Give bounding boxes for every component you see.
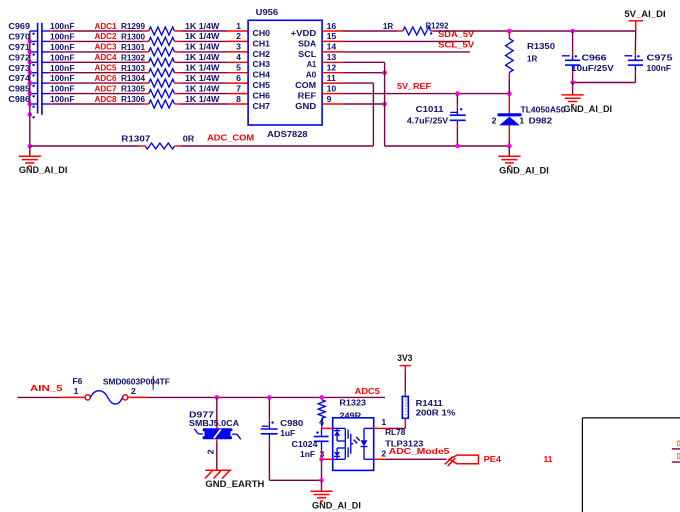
svg-text:1R: 1R (527, 54, 538, 64)
svg-text:100nF: 100nF (50, 73, 75, 83)
capacitor C980 1uF (261, 397, 304, 480)
big IC box bottom right (582, 418, 680, 512)
svg-text:GND_AI_DI: GND_AI_DI (19, 165, 68, 175)
capacitor C966 10uF/25V (562, 31, 614, 83)
svg-text:2: 2 (381, 448, 386, 458)
U956 right pin names (291, 28, 317, 111)
pin 3 opto (320, 449, 333, 459)
svg-text:1K 1/4W: 1K 1/4W (185, 83, 220, 93)
svg-text:D982: D982 (529, 115, 553, 125)
svg-text:1/16W: 1/16W (404, 396, 409, 416)
svg-text:11: 11 (544, 454, 553, 464)
wire 5V_AI_DI rail (434, 30, 636, 32)
svg-text:1K 1/4W: 1K 1/4W (185, 94, 220, 104)
svg-text:0R: 0R (183, 133, 195, 143)
junction dot A0 (382, 70, 387, 75)
edge fragments right (672, 441, 680, 462)
ground GND_AI_DI under D982 (498, 146, 549, 176)
wire net ADC6 row 6 (50, 73, 143, 83)
pin 1 CH0 (227, 21, 248, 31)
svg-text:1: 1 (381, 417, 386, 427)
wire to pin 1 (181, 30, 227, 32)
svg-text:CH2: CH2 (253, 49, 271, 59)
junction dot 5V_REF at R1350/D982 (507, 91, 512, 96)
svg-text:5V_AI_DI: 5V_AI_DI (624, 9, 665, 19)
diode D982 TL4050A50 (492, 94, 566, 146)
svg-text:6: 6 (236, 73, 241, 83)
svg-text:+VDD: +VDD (291, 28, 317, 38)
pin 13 A1 (322, 61, 343, 63)
svg-text:C975: C975 (647, 53, 673, 63)
svg-text:14: 14 (327, 42, 337, 52)
svg-text:249R: 249R (339, 410, 362, 420)
svg-text:16: 16 (327, 21, 337, 31)
svg-text:ADC8: ADC8 (95, 94, 117, 104)
pin 7 CH6 (227, 83, 248, 93)
port PE4 (445, 454, 501, 466)
svg-text:TL4050A50: TL4050A50 (521, 104, 566, 114)
pin 4 CH3 (227, 52, 248, 62)
ground GND_EARTH (205, 470, 265, 489)
wire vertical COM down (372, 83, 374, 146)
pin 16 +VDD (322, 30, 343, 32)
wire SCL_5V net (343, 40, 474, 52)
capacitor C974 (8, 73, 74, 87)
svg-text:R1299: R1299 (121, 21, 145, 31)
svg-text:REF: REF (298, 91, 317, 101)
svg-text:SCL_5V: SCL_5V (438, 40, 474, 50)
svg-text:R1305: R1305 (121, 84, 145, 94)
svg-text:GND_EARTH: GND_EARTH (205, 479, 264, 489)
svg-text:1R: 1R (383, 21, 394, 31)
svg-text:COM: COM (295, 80, 316, 90)
wire to pin 8 (181, 103, 227, 105)
optocoupler RL78 TLP3123 (333, 418, 424, 471)
svg-text:3V3: 3V3 (397, 353, 412, 363)
junction dot pin3/C1024 (319, 457, 324, 462)
svg-text:1: 1 (519, 115, 524, 125)
resistor R1306 1K 1/4W (121, 94, 220, 108)
svg-text:AIN_5: AIN_5 (30, 383, 63, 393)
ground GND_AI_DI upper right (562, 83, 613, 115)
resistor R1292 1R (383, 20, 449, 35)
svg-text:C972: C972 (8, 52, 30, 62)
svg-text:1nF: 1nF (300, 449, 315, 459)
svg-text:2: 2 (492, 115, 497, 125)
fuse F6 SMD0603P004TF (72, 376, 169, 404)
svg-text:PE4: PE4 (484, 454, 501, 464)
capacitor C1011 4.7uF/25V (407, 94, 466, 146)
capacitor bank C969-C986 shared plates (38, 23, 42, 115)
svg-text:12: 12 (327, 63, 337, 73)
wire net ADC4 row 4 (50, 52, 143, 62)
svg-text:C966: C966 (582, 53, 607, 63)
svg-text:100nF: 100nF (50, 32, 75, 42)
junction dot rail at R1350 (507, 29, 512, 34)
svg-text:100nF: 100nF (647, 63, 672, 73)
svg-text:C970: C970 (8, 32, 30, 42)
junction dot at ground bus bottom (28, 144, 33, 149)
pin 1 opto (374, 417, 390, 428)
svg-text:10: 10 (327, 83, 337, 93)
resistor R1300 1K 1/4W (121, 31, 220, 45)
capacitor C970 (8, 32, 74, 46)
capacitor C1024 1nF (292, 428, 329, 459)
svg-text:ADC1: ADC1 (95, 21, 117, 31)
svg-text:15: 15 (327, 31, 337, 41)
svg-text:ADC5: ADC5 (355, 386, 380, 396)
svg-text:1K 1/4W: 1K 1/4W (185, 63, 220, 73)
svg-text:C986: C986 (8, 94, 30, 104)
svg-text:100nF: 100nF (50, 94, 75, 104)
svg-text:1K 1/4W: 1K 1/4W (185, 73, 220, 83)
wire GND pin 9 (343, 103, 385, 105)
svg-text:1: 1 (236, 21, 241, 31)
svg-text:C1011: C1011 (416, 104, 444, 114)
svg-text:R1302: R1302 (121, 52, 145, 62)
photon arrows (356, 437, 360, 441)
svg-text:R1323: R1323 (339, 398, 366, 408)
pin 8 CH7 (227, 94, 248, 104)
pin 5 CH4 (227, 63, 248, 73)
svg-text:GND_AI_DI: GND_AI_DI (564, 104, 613, 114)
svg-text:SMBJ5.0CA: SMBJ5.0CA (189, 418, 240, 428)
junction dot D982 anode (507, 144, 512, 149)
resistor R1305 1K 1/4W (121, 83, 220, 97)
svg-text:R1307: R1307 (121, 133, 150, 143)
capacitor C985 (8, 84, 74, 98)
svg-text:C974: C974 (8, 73, 30, 83)
svg-text:CH3: CH3 (253, 59, 271, 69)
svg-text:ADC4: ADC4 (95, 52, 117, 62)
resistor R1303 1K 1/4W (121, 63, 220, 77)
svg-text:SMD0603P004TF: SMD0603P004TF (103, 377, 170, 387)
svg-text:CH7: CH7 (253, 101, 271, 111)
svg-text:1K 1/4W: 1K 1/4W (185, 42, 220, 52)
svg-text:100nF: 100nF (50, 52, 75, 62)
ground GND_AI_DI left (19, 146, 68, 175)
svg-text:A0: A0 (306, 70, 317, 80)
capacitor C972 (8, 52, 74, 66)
pin 2 opto (374, 448, 387, 459)
wire ADC_COM net (30, 133, 254, 146)
svg-text:CH6: CH6 (253, 91, 271, 101)
pin 9 GND (322, 103, 343, 105)
svg-text:F6: F6 (72, 376, 82, 386)
wire C966 to C975 bottom link (573, 82, 636, 84)
svg-text:R1301: R1301 (121, 42, 145, 52)
svg-text:GND: GND (295, 101, 316, 111)
pin 15 SDA (322, 40, 343, 42)
svg-text:U956: U956 (256, 7, 279, 17)
svg-text:ADC6: ADC6 (95, 73, 117, 83)
wire +VDD pin16 to R1292 (343, 30, 397, 32)
svg-text:1K 1/4W: 1K 1/4W (185, 52, 220, 62)
wire capacitor ground bus (29, 31, 31, 146)
svg-text:ADC3: ADC3 (95, 42, 117, 52)
svg-text:100nF: 100nF (50, 63, 75, 73)
capacitor C973 (8, 63, 74, 77)
pin 6 CH5 (227, 73, 248, 83)
wire GND_AI_DI horizontal to C1011/D982 grounds (385, 145, 510, 147)
junction dot C980 (267, 395, 272, 400)
wire ADC_COM to COM pin (181, 145, 373, 147)
svg-text:2: 2 (236, 31, 241, 41)
svg-text:SCL: SCL (298, 49, 317, 59)
junction dot D977 (215, 395, 220, 400)
wire R1411 to pin 1 (390, 427, 406, 429)
wire to pin 6 (181, 82, 227, 84)
svg-text:C969: C969 (8, 21, 30, 31)
ground GND_AI_DI bottom (311, 480, 362, 510)
svg-text:8: 8 (236, 94, 241, 104)
wire A1 to ground net (343, 61, 385, 63)
pin 2 CH1 (227, 31, 248, 41)
junction dots on capacitor ground bus (28, 39, 35, 118)
wire to pin 4 (181, 61, 227, 63)
opto internals: input LED (354, 428, 374, 459)
svg-text:1: 1 (74, 386, 79, 396)
svg-text:R1306: R1306 (121, 94, 145, 104)
svg-text:CH5: CH5 (253, 80, 271, 90)
resistor R1323 249R (318, 398, 366, 429)
svg-text:ADS7828: ADS7828 (267, 129, 308, 139)
svg-text:200R 1%: 200R 1% (416, 408, 456, 418)
wire to pin 3 (181, 51, 227, 53)
junction dot GND pin 9 (382, 102, 387, 107)
svg-text:SDA: SDA (298, 38, 317, 48)
resistor R1411 200R 1% (402, 396, 456, 428)
svg-text:11: 11 (327, 73, 336, 83)
svg-text:1uF: 1uF (280, 428, 295, 438)
wire COM to ADC_COM net (343, 82, 373, 84)
svg-text:5: 5 (236, 63, 241, 73)
svg-text:4.7uF/25V: 4.7uF/25V (407, 116, 449, 126)
wire vertical A1/A0/GND down to GND_AI_DI (384, 62, 386, 146)
svg-text:7: 7 (236, 83, 241, 93)
svg-text:C980: C980 (280, 418, 303, 428)
power port 5V_AI_DI (624, 9, 665, 31)
wire net ADC5 row 5 (50, 63, 143, 73)
svg-text:C1024: C1024 (292, 439, 318, 449)
wire to pin 2 (181, 40, 227, 42)
svg-text:1K 1/4W: 1K 1/4W (185, 31, 220, 41)
resistor R1304 1K 1/4W (121, 73, 220, 87)
junction dot 5V_REF at C1011 (455, 91, 460, 96)
svg-text:9: 9 (327, 94, 332, 104)
svg-text:R1411: R1411 (416, 398, 443, 408)
svg-text:A1: A1 (307, 59, 317, 69)
resistor R1299 1K 1/4W (121, 21, 220, 35)
svg-text:C971: C971 (8, 42, 30, 52)
wire net ADC3 row 3 (50, 42, 143, 52)
opto internals: output MOSFETs (333, 428, 354, 459)
wire C980 bottom to ground junction (269, 479, 321, 481)
svg-text:13: 13 (327, 52, 337, 62)
wire AIN_5 net (18, 383, 86, 397)
junction dot R1323 (319, 395, 324, 400)
pin 12 A0 (322, 72, 343, 74)
svg-text:GND_AI_DI: GND_AI_DI (499, 166, 549, 176)
svg-text:R1350: R1350 (527, 41, 555, 51)
svg-text:CH0: CH0 (253, 28, 271, 38)
wire 5V_REF net (343, 81, 509, 94)
svg-text:CH4: CH4 (253, 70, 271, 80)
junction dot C966 bottom (570, 80, 575, 85)
capacitor C969 (8, 21, 74, 35)
svg-text:100nF: 100nF (50, 42, 75, 52)
wire net ADC1 row 1 (50, 21, 143, 31)
svg-text:ADC7: ADC7 (95, 83, 117, 93)
wire net ADC7 row 7 (50, 83, 143, 93)
op-amp U1 equivalent: ADC U956 ADS7828 box (248, 7, 322, 139)
wire A0 to ground net (343, 72, 385, 74)
wire ADC_Mode5 net (385, 446, 450, 460)
svg-text:ADC5: ADC5 (95, 63, 117, 73)
wire to pin 7 (181, 93, 227, 95)
svg-text:5V_REF: 5V_REF (397, 81, 431, 91)
pin 10 REF (322, 93, 343, 95)
power port 3V3 (397, 353, 412, 396)
pin 4 opto (322, 427, 333, 429)
capacitor C971 (8, 42, 74, 56)
resistor R1302 1K 1/4W (121, 52, 220, 66)
junction dot rail at C966 (570, 29, 575, 34)
pin 11 COM (322, 82, 343, 84)
svg-text:4: 4 (236, 52, 241, 62)
TVS diode D977 SMBJ5.0CA (189, 397, 241, 470)
svg-text:2: 2 (205, 449, 215, 454)
svg-text:R1304: R1304 (121, 73, 145, 83)
svg-text:3: 3 (236, 42, 241, 52)
svg-text:R1303: R1303 (121, 63, 145, 73)
resistor R1307 0R (121, 133, 195, 149)
capacitor C986 (8, 94, 74, 108)
resistor R1350 1R (506, 31, 556, 94)
wire SDA_5V net (343, 29, 474, 41)
resistor R1301 1K 1/4W (121, 42, 220, 56)
wire fuse output to junctions (128, 396, 385, 398)
svg-text:ADC2: ADC2 (95, 31, 117, 41)
svg-text:100nF: 100nF (50, 84, 75, 94)
junction dot ground (319, 478, 324, 483)
svg-text:100nF: 100nF (50, 21, 75, 31)
U956 right pin numbers 16..9 (327, 21, 337, 104)
pin 3 CH2 (227, 42, 248, 52)
wire net ADC2 row 2 (50, 31, 143, 41)
svg-text:GND_AI_DI: GND_AI_DI (312, 501, 361, 511)
svg-text:R1300: R1300 (121, 32, 145, 42)
svg-text:C985: C985 (8, 84, 30, 94)
wire to pin 5 (181, 72, 227, 74)
junction dot C1011 bottom (455, 144, 460, 149)
wire net ADC8 row 8 (50, 94, 143, 104)
U956 left pin names (253, 28, 271, 111)
svg-text:C973: C973 (8, 63, 30, 73)
wire pin3 down to ground (321, 459, 323, 480)
pin 14 SCL (322, 51, 343, 53)
svg-text:2: 2 (131, 386, 136, 396)
svg-text:1K 1/4W: 1K 1/4W (185, 21, 220, 31)
svg-text:ADC_Mode5: ADC_Mode5 (389, 446, 450, 456)
capacitor C975 100nF (625, 31, 673, 83)
svg-text:ADC_COM: ADC_COM (207, 133, 254, 143)
svg-text:CH1: CH1 (253, 38, 271, 48)
